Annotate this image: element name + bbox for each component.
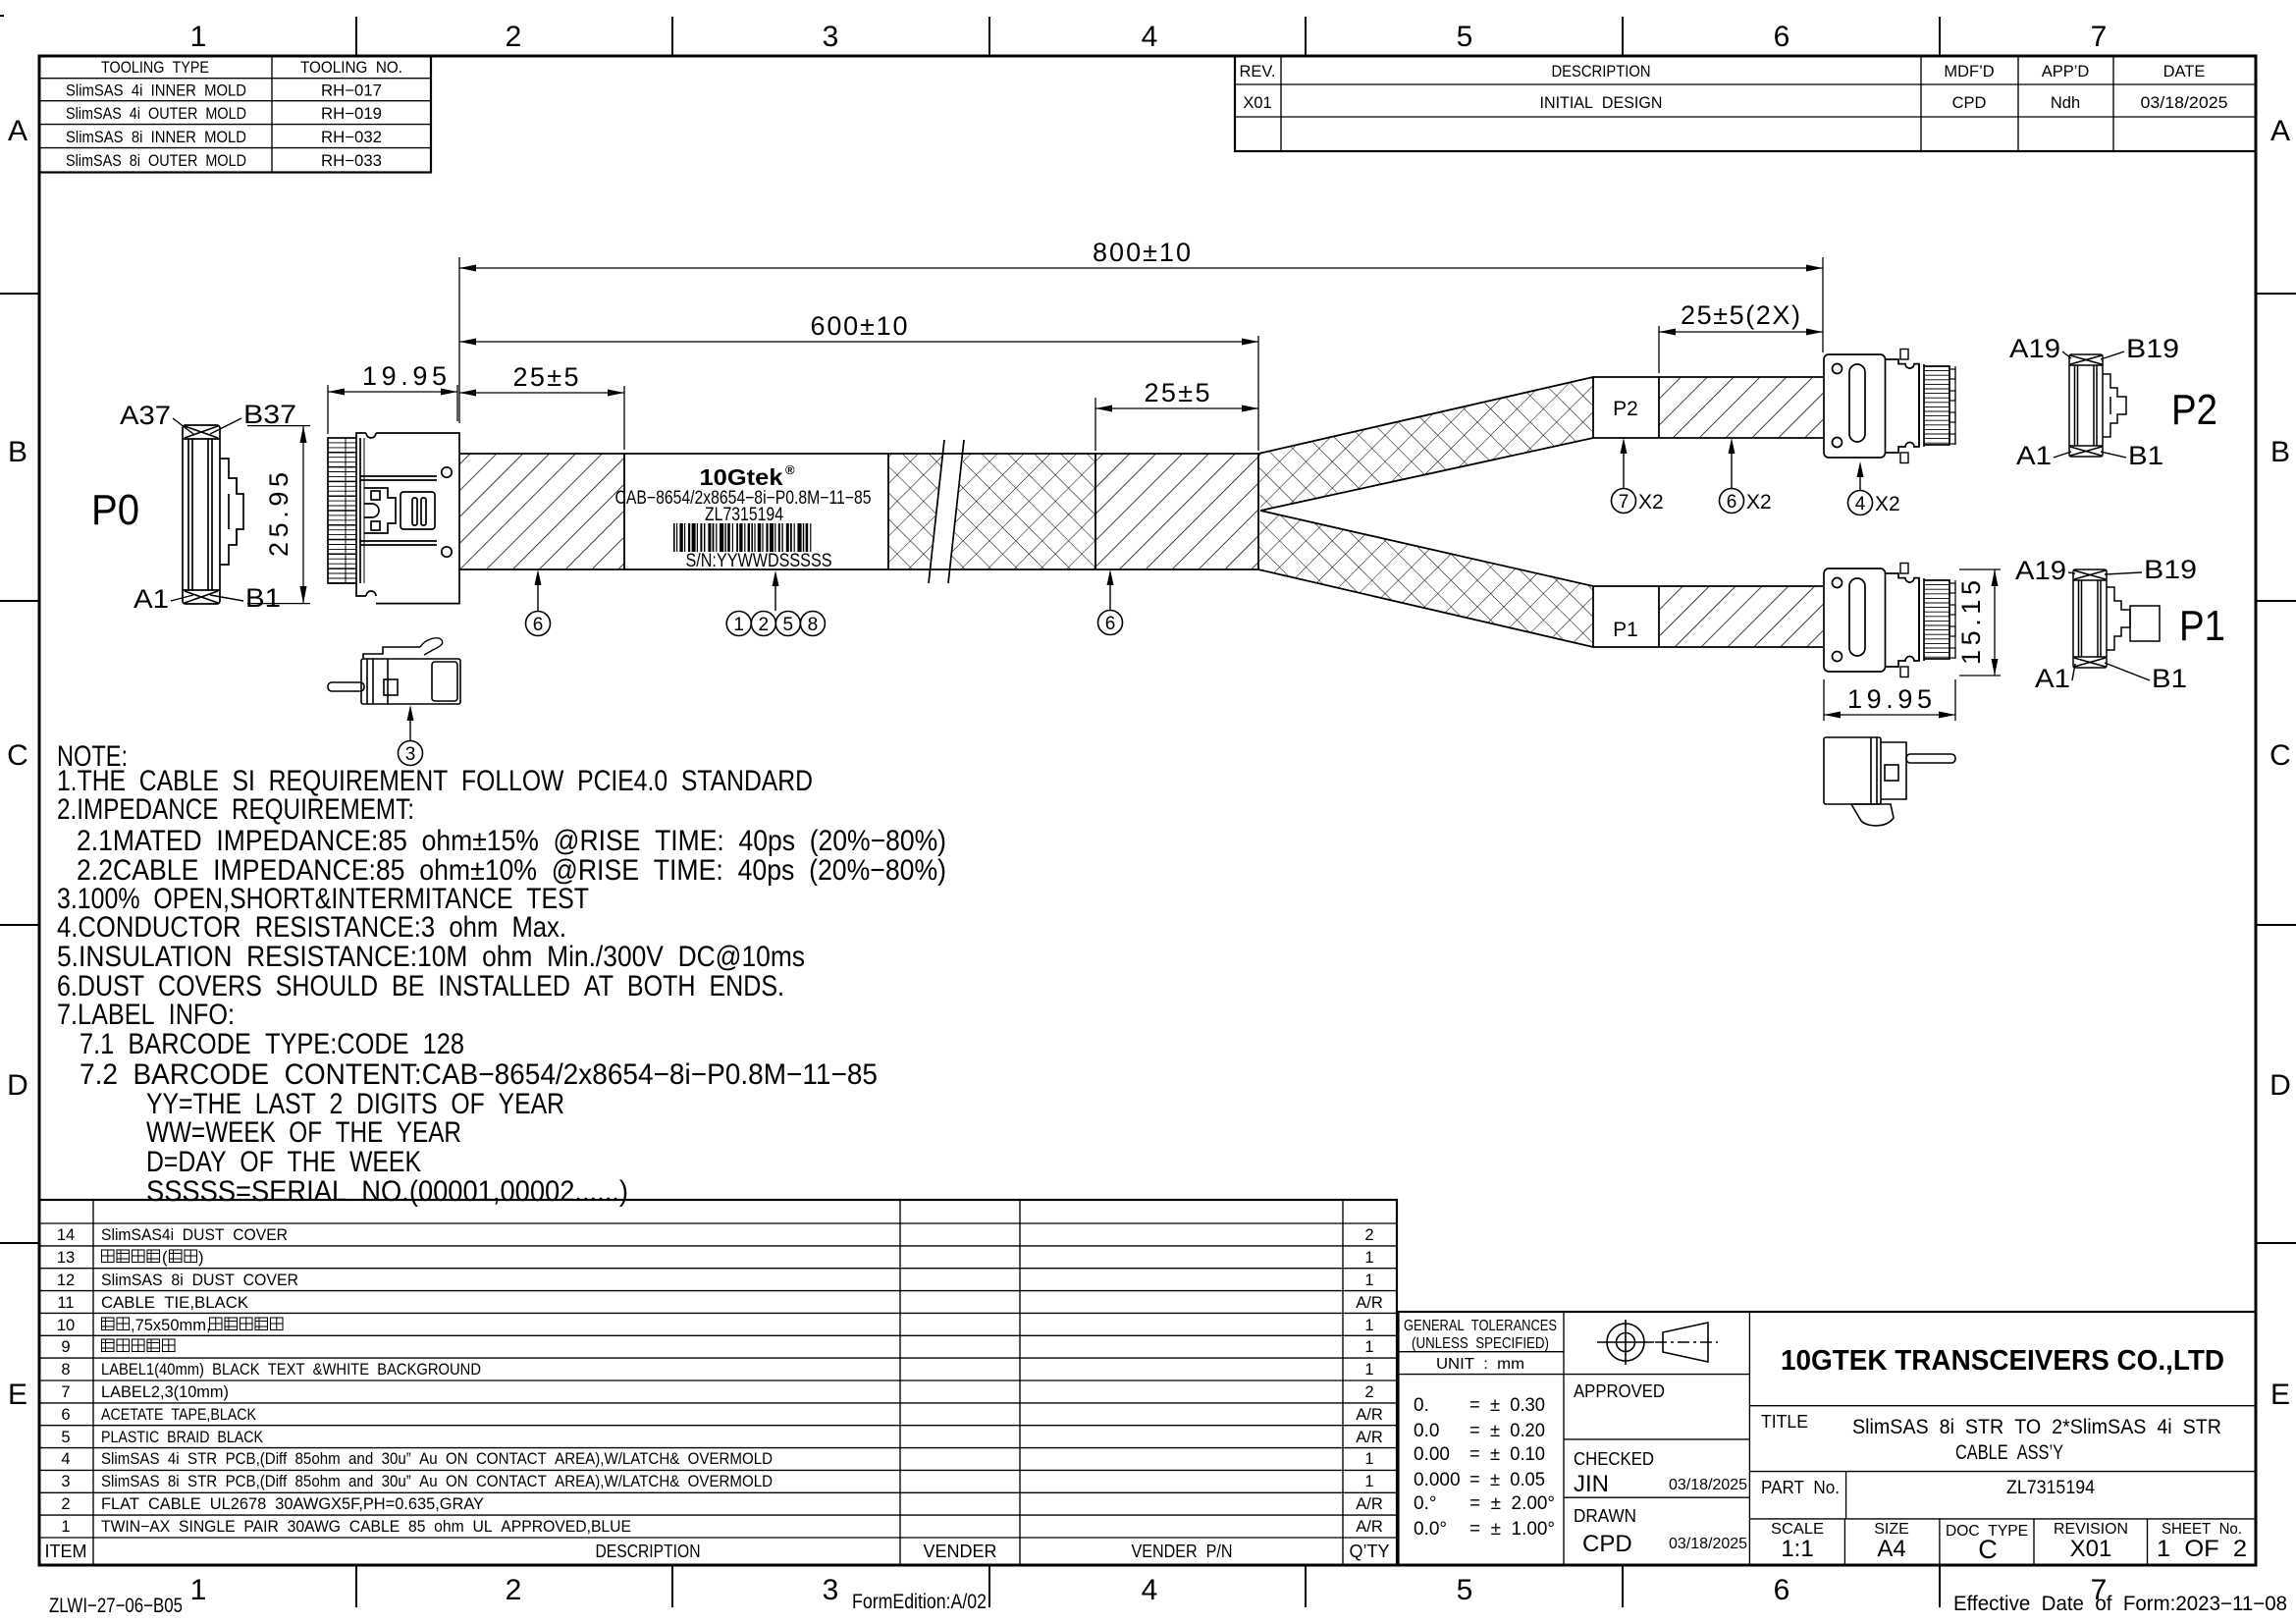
svg-text:JIN: JIN xyxy=(1574,1471,1609,1497)
svg-text:1:1: 1:1 xyxy=(1781,1536,1813,1562)
svg-text:B19: B19 xyxy=(2144,555,2197,584)
balloon 6 a xyxy=(526,569,551,636)
svg-text:19.95: 19.95 xyxy=(362,361,447,391)
balloons 1 2 5 8 xyxy=(726,570,825,636)
svg-text:ZLWI−27−06−B05: ZLWI−27−06−B05 xyxy=(49,1595,183,1617)
svg-text:SlimSAS 8i INNER MOLD: SlimSAS 8i INNER MOLD xyxy=(66,129,246,146)
svg-text:ZL7315194: ZL7315194 xyxy=(705,505,783,525)
P2 mating view xyxy=(2069,354,2126,457)
svg-text:SlimSAS 8i OUTER MOLD: SlimSAS 8i OUTER MOLD xyxy=(66,152,246,170)
svg-text:SlimSAS 8i STR PCB,(Diff 8: SlimSAS 8i STR PCB,(Diff 85ohm and 30u” … xyxy=(101,1473,773,1490)
svg-text:19.95: 19.95 xyxy=(1847,684,1932,714)
svg-text:15.15: 15.15 xyxy=(1956,580,1986,665)
svg-text:03/18/2025: 03/18/2025 xyxy=(1669,1477,1747,1493)
svg-text:RH−033: RH−033 xyxy=(321,152,382,170)
svg-text:X01: X01 xyxy=(1243,94,1271,112)
svg-text:D: D xyxy=(7,1069,28,1102)
svg-text:SSSSS=SERIAL NO.(00001,00002.: SSSSS=SERIAL NO.(00001,00002......) xyxy=(146,1175,628,1208)
8i dust cover (item 3) xyxy=(328,638,460,704)
svg-text:2: 2 xyxy=(506,21,522,53)
svg-text:FormEdition:A/02: FormEdition:A/02 xyxy=(852,1591,987,1613)
svg-text:2.IMPEDANCE REQUIREMEMT:: 2.IMPEDANCE REQUIREMEMT: xyxy=(57,793,414,826)
svg-text:B1: B1 xyxy=(2152,664,2187,693)
svg-text:C: C xyxy=(1978,1535,1998,1564)
svg-text:P2: P2 xyxy=(2171,386,2217,434)
svg-text:0.°: 0.° xyxy=(1414,1493,1436,1514)
svg-text:P1: P1 xyxy=(1613,619,1638,641)
svg-text:= ± 1.00°: = ± 1.00° xyxy=(1469,1519,1555,1540)
svg-text:DATE: DATE xyxy=(2163,63,2206,81)
svg-text:1: 1 xyxy=(190,1574,207,1606)
dim 15.15 xyxy=(1956,569,2001,676)
balloon 4 X2 xyxy=(1848,461,1900,515)
svg-text:1: 1 xyxy=(1364,1272,1373,1289)
svg-text:1: 1 xyxy=(733,615,744,635)
P1 connector (4i plug, lower branch) xyxy=(1824,564,1955,677)
svg-text:0.: 0. xyxy=(1414,1395,1429,1416)
svg-text:B: B xyxy=(2270,436,2290,468)
svg-text:4: 4 xyxy=(1142,21,1158,53)
svg-text:A: A xyxy=(8,115,27,147)
svg-text:(UNLESS SPECIFIED): (UNLESS SPECIFIED) xyxy=(1412,1335,1549,1352)
svg-text:E: E xyxy=(8,1379,27,1411)
svg-text:C: C xyxy=(2269,739,2291,772)
svg-text:3: 3 xyxy=(823,21,839,53)
dim 800+-10 xyxy=(459,238,1823,352)
cable braid straight section hatches xyxy=(459,377,1823,647)
svg-text:25±5(2X): 25±5(2X) xyxy=(1681,300,1800,330)
svg-text:1: 1 xyxy=(1364,1317,1373,1334)
svg-text:WW=WEEK OF THE YEAR: WW=WEEK OF THE YEAR xyxy=(146,1116,461,1149)
P0 front labels xyxy=(91,400,296,614)
svg-text:X2: X2 xyxy=(1638,491,1664,514)
svg-text:A4: A4 xyxy=(1877,1536,1905,1562)
svg-text:APP’D: APP’D xyxy=(2042,63,2090,81)
svg-text:= ± 0.20: = ± 0.20 xyxy=(1469,1421,1545,1441)
svg-text:6: 6 xyxy=(1105,614,1116,634)
svg-text:SlimSAS 4i INNER MOLD: SlimSAS 4i INNER MOLD xyxy=(66,82,246,100)
P0 connector side view (8i plug) xyxy=(328,433,459,604)
svg-text:CPD: CPD xyxy=(1582,1531,1632,1557)
svg-text:800±10: 800±10 xyxy=(1093,238,1191,267)
svg-text:0.00: 0.00 xyxy=(1414,1444,1450,1465)
svg-text:7: 7 xyxy=(2091,21,2108,53)
svg-text:1: 1 xyxy=(1364,1473,1373,1490)
svg-text:Q’TY: Q’TY xyxy=(1349,1542,1389,1561)
svg-text:B1: B1 xyxy=(245,583,281,613)
svg-text:B1: B1 xyxy=(2128,441,2163,470)
svg-text:03/18/2025: 03/18/2025 xyxy=(2141,94,2228,112)
svg-text:RH−017: RH−017 xyxy=(321,82,382,100)
svg-text:E: E xyxy=(2270,1379,2290,1411)
svg-text:= ± 0.05: = ± 0.05 xyxy=(1469,1470,1545,1490)
svg-text:P0: P0 xyxy=(91,486,139,534)
dim 25+-5 left xyxy=(459,362,624,450)
svg-text:): ) xyxy=(198,1249,204,1267)
svg-text:B: B xyxy=(8,436,27,468)
svg-text:13: 13 xyxy=(57,1249,75,1267)
svg-text:5: 5 xyxy=(783,615,794,635)
P1 mating labels xyxy=(2015,555,2225,693)
svg-text:5: 5 xyxy=(1457,21,1473,53)
svg-text:SlimSAS 8i STR TO 2*SlimSA: SlimSAS 8i STR TO 2*SlimSAS 4i STR xyxy=(1852,1416,2221,1438)
svg-text:A/R: A/R xyxy=(1356,1429,1383,1446)
svg-text:A1: A1 xyxy=(133,584,169,614)
svg-text:PLASTIC BRAID BLACK: PLASTIC BRAID BLACK xyxy=(101,1429,263,1446)
svg-text:1: 1 xyxy=(190,21,207,53)
svg-text:7: 7 xyxy=(61,1383,70,1401)
svg-text:INITIAL DESIGN: INITIAL DESIGN xyxy=(1540,94,1663,112)
BOM-TABLE bottom-left xyxy=(39,1200,1397,1565)
svg-text:6: 6 xyxy=(1774,1574,1790,1606)
svg-text:SlimSAS 4i OUTER MOLD: SlimSAS 4i OUTER MOLD xyxy=(66,105,246,123)
svg-text:DESCRIPTION: DESCRIPTION xyxy=(1552,63,1651,81)
svg-text:6: 6 xyxy=(61,1406,70,1424)
svg-text:RH−019: RH−019 xyxy=(321,105,382,123)
balloon 7 X2 xyxy=(1612,438,1664,514)
svg-text:14: 14 xyxy=(57,1226,75,1244)
svg-text:A19: A19 xyxy=(2009,334,2060,363)
svg-text:B37: B37 xyxy=(243,400,296,429)
svg-text:4: 4 xyxy=(61,1450,70,1468)
svg-text:1: 1 xyxy=(1364,1249,1373,1267)
svg-text:(: ( xyxy=(162,1249,168,1267)
svg-text:10: 10 xyxy=(57,1317,75,1334)
svg-text:Ndh: Ndh xyxy=(2051,94,2080,112)
svg-text:A1: A1 xyxy=(2016,441,2052,470)
svg-text:ACETATE TAPE,BLACK: ACETATE TAPE,BLACK xyxy=(101,1406,256,1424)
svg-text:VENDER P/N: VENDER P/N xyxy=(1132,1542,1233,1561)
balloon 6 X2 xyxy=(1720,438,1772,514)
dim 25+-5(2X) xyxy=(1659,300,1823,373)
svg-text:CHECKED: CHECKED xyxy=(1574,1449,1654,1469)
svg-text:1 OF 2: 1 OF 2 xyxy=(2157,1536,2247,1562)
svg-text:= ± 0.10: = ± 0.10 xyxy=(1469,1444,1545,1465)
svg-text:7.LABEL INFO:: 7.LABEL INFO: xyxy=(57,999,235,1031)
REVISION-TABLE top-right xyxy=(1235,56,2256,151)
svg-text:Effective Date of Form:2023: Effective Date of Form:2023−11−08 xyxy=(1953,1593,2287,1615)
svg-text:D: D xyxy=(2269,1069,2291,1102)
dim 600+-10 xyxy=(459,257,1258,451)
svg-text:10Gtek: 10Gtek xyxy=(700,464,783,490)
TITLE-BLOCK bottom-right xyxy=(1399,1312,2257,1565)
svg-text:7: 7 xyxy=(1619,492,1629,513)
dim 19.95 right xyxy=(1824,679,1955,721)
svg-text:A/R: A/R xyxy=(1356,1518,1383,1536)
svg-text:7.1 BARCODE TYPE:CODE 128: 7.1 BARCODE TYPE:CODE 128 xyxy=(80,1028,464,1060)
svg-text:A37: A37 xyxy=(120,401,171,430)
svg-text:600±10: 600±10 xyxy=(811,311,908,341)
svg-text:LABEL2,3(10mm): LABEL2,3(10mm) xyxy=(101,1383,229,1401)
svg-text:0.0°: 0.0° xyxy=(1414,1519,1447,1540)
svg-text:CABLE ASS’Y: CABLE ASS’Y xyxy=(1955,1441,2063,1464)
svg-text:TWIN−AX SINGLE PAIR 30AWG: TWIN−AX SINGLE PAIR 30AWG CABLE 85 ohm U… xyxy=(101,1518,631,1536)
svg-text:7.2 BARCODE CONTENT:CAB−8654: 7.2 BARCODE CONTENT:CAB−8654/2x8654−8i−P… xyxy=(80,1058,878,1091)
dim 25.95 xyxy=(247,426,310,604)
svg-text:3: 3 xyxy=(405,744,416,765)
svg-text:A19: A19 xyxy=(2015,556,2066,585)
svg-text:DESCRIPTION: DESCRIPTION xyxy=(596,1542,701,1561)
balloon 3 xyxy=(399,705,423,766)
svg-text:CABLE TIE,BLACK: CABLE TIE,BLACK xyxy=(101,1294,248,1312)
CJK row13 室息标签(客供) xyxy=(102,1249,204,1267)
svg-text:5: 5 xyxy=(1457,1574,1473,1606)
svg-text:DRAWN: DRAWN xyxy=(1574,1506,1636,1526)
svg-text:RH−032: RH−032 xyxy=(321,129,382,146)
svg-text:VENDER: VENDER xyxy=(923,1542,996,1561)
svg-text:P2: P2 xyxy=(1613,398,1638,420)
svg-text:,75x50mm,: ,75x50mm, xyxy=(131,1317,211,1334)
CJK row9 客供包装袋 xyxy=(102,1339,176,1352)
svg-text:LABEL1(40mm) BLACK TEXT &WH: LABEL1(40mm) BLACK TEXT &WHITE BACKGROUN… xyxy=(101,1361,481,1379)
svg-text:P1: P1 xyxy=(2179,602,2225,650)
svg-text:2: 2 xyxy=(506,1574,522,1606)
balloon 6 b xyxy=(1098,569,1123,635)
cable label (item 8) texts xyxy=(615,462,872,571)
svg-text:X01: X01 xyxy=(2070,1536,2112,1562)
svg-text:X2: X2 xyxy=(1875,493,1900,515)
svg-text:SlimSAS 8i DUST COVER: SlimSAS 8i DUST COVER xyxy=(101,1272,298,1289)
svg-text:11: 11 xyxy=(57,1294,74,1312)
svg-text:6: 6 xyxy=(533,615,544,635)
svg-text:25±5: 25±5 xyxy=(1145,378,1210,407)
svg-text:X2: X2 xyxy=(1746,491,1772,514)
4i dust cover (below P1) xyxy=(1824,737,1955,826)
svg-text:25±5: 25±5 xyxy=(513,362,579,392)
svg-text:SlimSAS4i DUST COVER: SlimSAS4i DUST COVER xyxy=(101,1226,288,1244)
svg-text:®: ® xyxy=(785,462,795,477)
cable break mark xyxy=(927,438,966,585)
svg-text:REV.: REV. xyxy=(1240,63,1276,81)
P1 mating view xyxy=(2073,569,2160,668)
svg-text:D=DAY OF THE WEEK: D=DAY OF THE WEEK xyxy=(146,1146,421,1178)
svg-text:2: 2 xyxy=(1364,1226,1373,1244)
svg-text:TOOLING NO.: TOOLING NO. xyxy=(300,59,402,77)
svg-text:A/R: A/R xyxy=(1356,1294,1383,1312)
svg-text:A1: A1 xyxy=(2035,664,2070,693)
svg-text:10GTEK TRANSCEIVERS CO.,LTD: 10GTEK TRANSCEIVERS CO.,LTD xyxy=(1781,1345,2224,1377)
svg-text:6: 6 xyxy=(1727,492,1737,513)
NOTES text block xyxy=(57,740,946,1208)
P2 connector (4i plug, upper branch) xyxy=(1824,350,1955,463)
dim 19.95 left xyxy=(328,361,457,434)
dim 25+-5 middle xyxy=(1095,378,1258,451)
svg-text:4: 4 xyxy=(1855,494,1866,514)
svg-text:3: 3 xyxy=(823,1574,839,1606)
projection symbol xyxy=(1597,1320,1718,1365)
svg-text:1: 1 xyxy=(61,1518,70,1536)
svg-text:MDF’D: MDF’D xyxy=(1944,63,1994,81)
svg-text:APPROVED: APPROVED xyxy=(1574,1381,1665,1401)
svg-text:C: C xyxy=(7,739,28,772)
svg-text:FLAT CABLE UL2678 30AWGX5F,: FLAT CABLE UL2678 30AWGX5F,PH=0.635,GRAY xyxy=(101,1495,484,1513)
svg-text:4.CONDUCTOR RESISTANCE:3 ohm: 4.CONDUCTOR RESISTANCE:3 ohm Max. xyxy=(57,911,566,944)
svg-text:8: 8 xyxy=(61,1361,70,1379)
P2 mating labels xyxy=(2009,334,2217,470)
cable outline xyxy=(459,377,1823,647)
svg-text:6: 6 xyxy=(1774,21,1790,53)
svg-text:4: 4 xyxy=(1142,1574,1158,1606)
svg-text:GENERAL TOLERANCES: GENERAL TOLERANCES xyxy=(1404,1318,1557,1334)
FOOTER-TEXTS xyxy=(49,1591,2287,1617)
svg-text:1: 1 xyxy=(1364,1361,1373,1379)
svg-text:A: A xyxy=(2270,115,2290,147)
svg-text:= ± 0.30: = ± 0.30 xyxy=(1469,1395,1545,1416)
svg-text:03/18/2025: 03/18/2025 xyxy=(1669,1536,1747,1552)
svg-text:2: 2 xyxy=(1364,1383,1373,1401)
svg-text:ZL7315194: ZL7315194 xyxy=(2006,1478,2095,1498)
svg-text:5.INSULATION RESISTANCE:10M: 5.INSULATION RESISTANCE:10M ohm Min./300… xyxy=(57,941,805,973)
svg-text:0.0: 0.0 xyxy=(1414,1421,1439,1441)
svg-text:2.1MATED IMPEDANCE:85 ohm±15: 2.1MATED IMPEDANCE:85 ohm±15% @RISE TIME… xyxy=(77,825,946,857)
svg-text:TOOLING TYPE: TOOLING TYPE xyxy=(101,59,209,77)
svg-text:3: 3 xyxy=(61,1473,70,1490)
svg-text:5: 5 xyxy=(61,1429,70,1446)
svg-text:A/R: A/R xyxy=(1356,1406,1383,1424)
svg-text:CPD: CPD xyxy=(1952,94,1987,112)
svg-text:9: 9 xyxy=(61,1338,70,1356)
svg-text:12: 12 xyxy=(57,1272,75,1289)
svg-text:= ± 2.00°: = ± 2.00° xyxy=(1469,1493,1555,1514)
svg-text:SlimSAS 4i STR PCB,(Diff 8: SlimSAS 4i STR PCB,(Diff 85ohm and 30u” … xyxy=(101,1450,773,1468)
TOOLING-TABLE top-left xyxy=(39,56,431,173)
svg-text:ITEM: ITEM xyxy=(45,1542,87,1561)
svg-text:8: 8 xyxy=(808,615,819,635)
svg-text:1: 1 xyxy=(1364,1338,1373,1356)
svg-text:A/R: A/R xyxy=(1356,1495,1383,1513)
svg-text:2: 2 xyxy=(61,1495,70,1513)
svg-text:S/N:YYWWDSSSSS: S/N:YYWWDSSSSS xyxy=(686,551,832,571)
svg-text:25.95: 25.95 xyxy=(264,472,294,557)
svg-text:UNIT : mm: UNIT : mm xyxy=(1436,1356,1524,1373)
svg-text:PART No.: PART No. xyxy=(1761,1478,1840,1497)
CJK row10 袋贴,75x50mm,铜版纸标签 xyxy=(102,1317,284,1334)
svg-text:B19: B19 xyxy=(2126,334,2179,363)
svg-text:2: 2 xyxy=(759,615,770,635)
svg-text:TITLE: TITLE xyxy=(1761,1412,1808,1432)
P0 connector front view xyxy=(183,425,243,604)
svg-text:0.000: 0.000 xyxy=(1414,1470,1461,1490)
svg-text:1: 1 xyxy=(1364,1450,1373,1468)
